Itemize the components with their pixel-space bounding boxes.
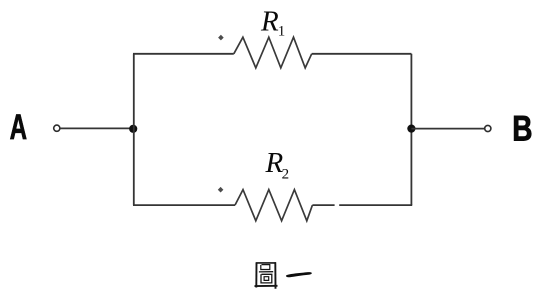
wire right vertical — [410, 54, 412, 205]
wire left vertical — [133, 54, 135, 205]
terminal B — [485, 125, 491, 131]
wire bottom middle segment — [312, 204, 334, 206]
wire junction to B — [411, 128, 484, 130]
marker dot near R1 — [218, 35, 224, 41]
wire bottom left — [133, 204, 235, 206]
marker dot near R2 — [218, 187, 224, 193]
wire top right — [312, 53, 412, 55]
wire bottom right segment — [339, 204, 412, 206]
junction node right — [407, 125, 415, 133]
wire A to left junction — [60, 127, 131, 129]
svg-text:A: A — [10, 109, 27, 147]
resistor R1 — [234, 37, 312, 68]
caption character 一 — [286, 272, 312, 277]
caption character 圖 — [255, 262, 278, 289]
wire top left — [133, 53, 234, 55]
node B label — [512, 108, 532, 148]
svg-text:B: B — [512, 108, 532, 148]
resistor R2 — [235, 190, 312, 221]
svg-text:2: 2 — [282, 166, 290, 182]
svg-text:1: 1 — [278, 23, 286, 39]
svg-text:R: R — [260, 6, 279, 38]
terminal A — [54, 125, 60, 131]
junction node left — [129, 125, 137, 133]
node A label — [10, 109, 27, 147]
